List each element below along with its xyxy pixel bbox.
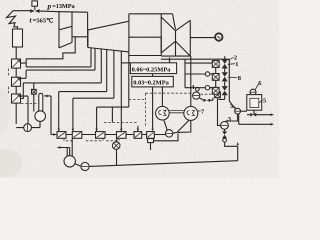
wire double pipe into tank top <box>58 138 73 156</box>
turbine LP cylinder (double flow) <box>161 14 190 56</box>
wire vertical to right column <box>184 59 186 87</box>
wire drain over to R6 box <box>154 133 179 140</box>
wire extraction 4 header D to R1 top <box>59 50 107 132</box>
supply water line with valve and arrow <box>247 110 271 115</box>
wire valve chain vertical <box>219 56 225 99</box>
valve after pump4 <box>204 99 210 102</box>
dashed S3 drain to deaerator <box>21 103 39 105</box>
wire R6 steam feed <box>152 87 154 129</box>
wire extraction 2 to heater S2 (header B) <box>21 48 96 78</box>
heater R5 <box>134 132 142 139</box>
wire square row4 down to pump3b <box>218 98 221 126</box>
label box 0.03~0.2MPa <box>132 76 174 87</box>
small circle b <box>205 86 209 90</box>
wire deaerator steam branch with reducer <box>33 83 35 112</box>
return water line with arrow <box>239 123 271 125</box>
wire LP exhaust verticals <box>161 41 190 56</box>
wire condensate from R1 up into deaerator with arrow <box>45 96 57 135</box>
arrow into R4 <box>120 129 122 132</box>
label 7 with dash <box>198 110 201 112</box>
crossover duct IP to LP <box>129 14 176 37</box>
valve W3 <box>222 86 228 95</box>
valve W4 vertical <box>224 129 226 131</box>
dashed low pressure steam lines <box>104 93 146 126</box>
wire under-R6 drain down <box>150 143 152 150</box>
wire pump to makeup circle <box>75 164 81 167</box>
valve V1 bowtie with actuator <box>32 1 38 6</box>
wire feedwater column <box>15 47 17 124</box>
generator G <box>215 33 222 40</box>
wire arrow up from box1 <box>169 60 171 63</box>
dashed drain cascade S1-S2 <box>8 69 10 77</box>
wire between boxes <box>152 74 154 77</box>
svg-text:0.06~0.25MPa: 0.06~0.25MPa <box>132 66 172 73</box>
pump P3b <box>221 122 229 130</box>
wire stub into label box 1 <box>121 62 130 64</box>
wire sloped feed to pump3 <box>229 101 235 109</box>
svg-text:=565℃: =565℃ <box>33 17 55 25</box>
heat network heater circle B <box>184 106 198 120</box>
wire heater A drain to pump C <box>164 120 191 133</box>
svg-text:=13MPa: =13MPa <box>52 3 75 10</box>
pump P3a <box>235 108 241 114</box>
valve W2 <box>222 72 228 81</box>
wire drain pump discharge <box>116 149 118 165</box>
turbine HP cylinder <box>59 12 72 48</box>
heater R3 <box>96 132 106 139</box>
heater R6 <box>147 132 155 139</box>
wire feeds <box>185 63 212 88</box>
heater S2 <box>12 77 21 86</box>
small box under R6 <box>148 139 154 143</box>
reducing unit square row4 <box>215 92 221 98</box>
wire R2 steam feed with arrow <box>73 50 114 131</box>
wire deaerator outlet to feed pump <box>16 121 40 127</box>
wire right downcomer <box>228 59 230 101</box>
wire condensate line along row <box>51 134 165 136</box>
wire valve to HP inlet <box>40 11 88 12</box>
dashed drain hooks under heater row <box>64 138 119 141</box>
wire pump3 suction <box>241 110 248 112</box>
svg-text:5: 5 <box>263 98 266 105</box>
heat network heater circle A <box>156 106 170 120</box>
wire pump3 to return line <box>238 114 240 124</box>
reducer X-box on deaerator steam line <box>32 89 37 94</box>
hot water tank with inner core <box>247 95 262 111</box>
deaerator tank <box>35 111 46 122</box>
turbine IP cylinder <box>88 21 129 52</box>
reducing square U2 <box>212 74 219 81</box>
heater R2 <box>72 132 82 139</box>
small circle a <box>205 72 209 76</box>
wire extraction 5 stub to LP steam main <box>129 37 161 55</box>
dashed line above heaters AB <box>146 93 212 94</box>
pump 6 circle <box>250 89 256 95</box>
svg-text:p: p <box>47 1 52 10</box>
crossover duct HP to IP <box>72 12 88 47</box>
wire main steam line from reheat break to valve <box>13 10 31 12</box>
feed pump P1 <box>24 124 32 132</box>
wire link between heater circles <box>169 111 183 113</box>
arrow into R3 <box>95 129 97 132</box>
wire S3 drain down to feed pump <box>21 96 29 124</box>
reducing square U1 <box>212 61 219 68</box>
return pump P5 <box>81 162 89 170</box>
wire LP exhaust down to heater B <box>190 56 192 106</box>
wire R5 steam feed with arrow <box>137 126 139 132</box>
valve W1 (vertical bowtie) <box>222 59 228 68</box>
wire extraction 3 header C to S3 and deaerator <box>21 49 102 99</box>
wire square interconnects <box>215 67 217 87</box>
drain pump P2 <box>112 142 120 150</box>
wire from box2 down to heater circle A <box>161 87 163 107</box>
arrow into R6 <box>151 129 153 132</box>
svg-text:1: 1 <box>235 61 238 68</box>
wire extraction 7 down to dashed header <box>97 52 129 132</box>
wire extraction v1 <box>90 48 92 67</box>
wire bottom long return line <box>89 161 238 167</box>
shaft to generator <box>190 37 215 39</box>
pump P4 <box>193 92 200 99</box>
boiler B <box>13 29 23 47</box>
svg-text:8: 8 <box>238 75 241 82</box>
wire branch to dashed line <box>111 107 113 122</box>
wire steam line under LP to right column <box>161 58 229 60</box>
small circle under valve <box>223 138 227 142</box>
label box 0.06~0.25MPa <box>130 63 176 74</box>
reheat break (zigzag) <box>7 11 18 29</box>
svg-text:3: 3 <box>228 116 231 123</box>
small circle above pump 4 <box>196 87 200 91</box>
hookup pump C <box>165 130 172 137</box>
heater S3 <box>12 94 21 103</box>
wire extraction 1 to heater S1 (header A) <box>20 37 91 67</box>
reducing square U3 <box>212 87 219 94</box>
wire drain pump under R4 <box>116 138 118 142</box>
heater R1 <box>57 132 66 139</box>
wire pump3a to pump3b <box>226 114 238 122</box>
dashed drain cascade S2-S3 <box>8 87 10 94</box>
heater R4 <box>117 132 127 139</box>
wire extraction 6 down to R4 <box>120 51 122 132</box>
makeup water tank circle <box>64 156 75 167</box>
svg-text:0.03~0.2MPa: 0.03~0.2MPa <box>133 80 169 87</box>
deaerator column <box>39 93 43 111</box>
wire down to bottom return <box>225 142 238 161</box>
heater S1 <box>12 59 21 68</box>
